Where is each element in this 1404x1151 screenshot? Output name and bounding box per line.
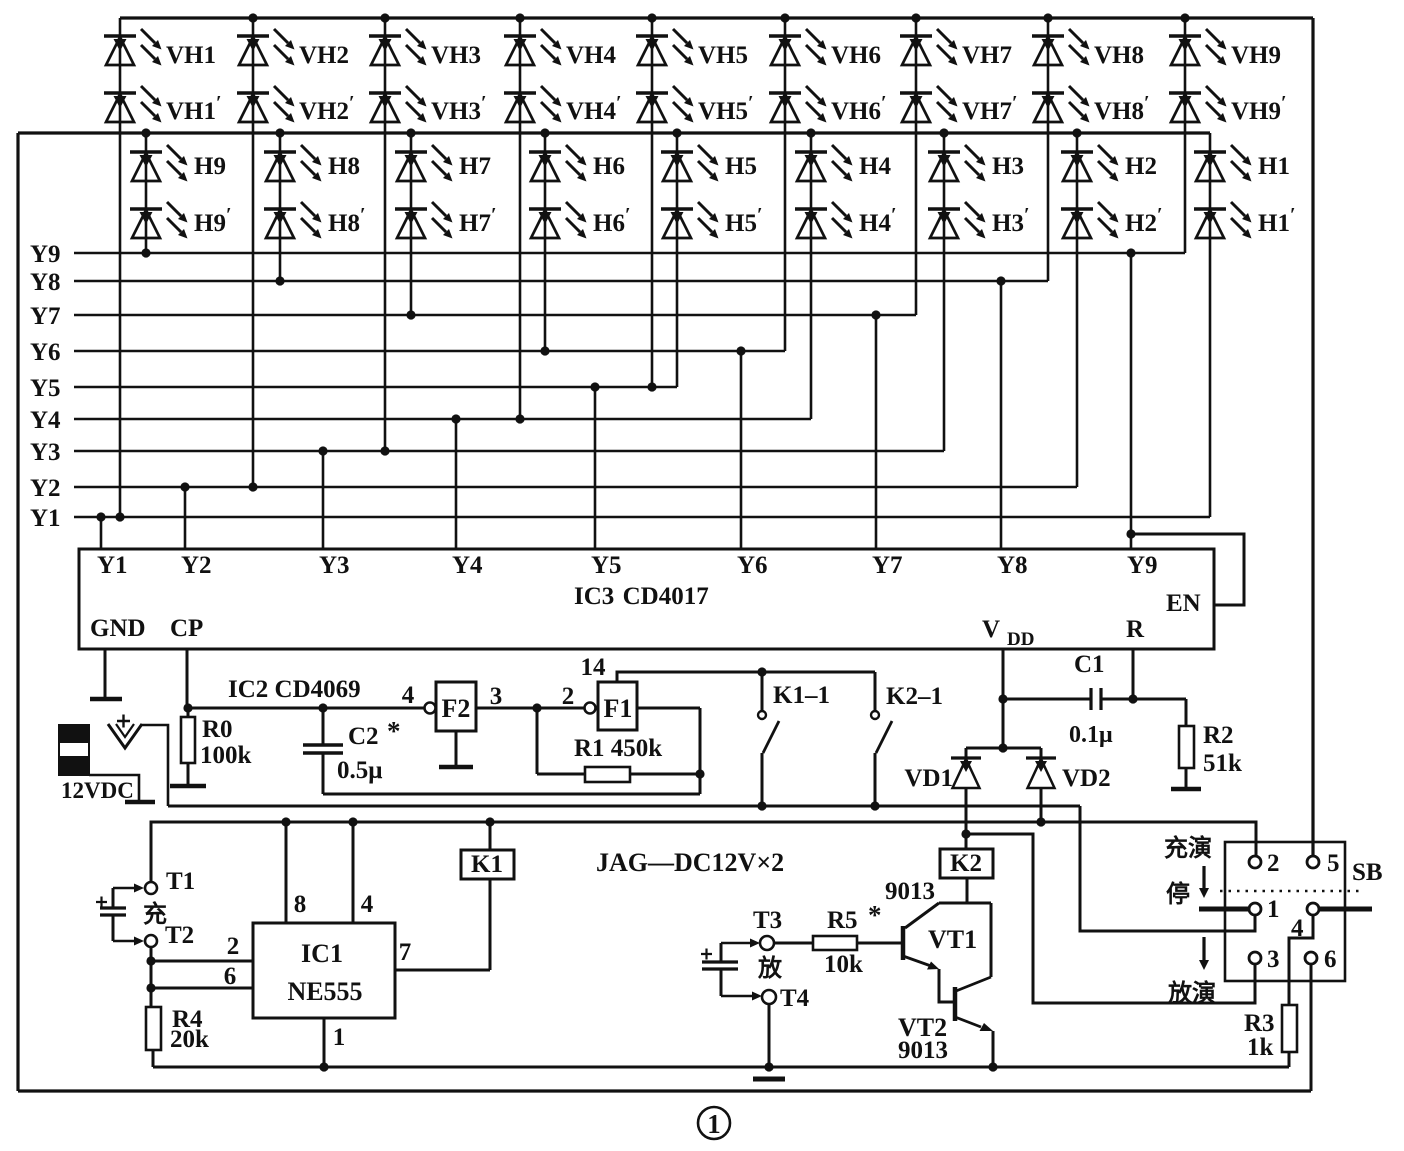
svg-text:2: 2	[562, 683, 575, 710]
svg-text:*: *	[387, 716, 401, 746]
svg-text:Y8: Y8	[997, 552, 1028, 579]
svg-text:K2: K2	[950, 850, 982, 877]
svg-text:Y7: Y7	[30, 303, 61, 330]
svg-text:GND: GND	[90, 615, 146, 642]
svg-text:K2–1: K2–1	[886, 683, 943, 710]
svg-text:T1: T1	[166, 868, 195, 895]
svg-text:6: 6	[224, 963, 237, 990]
svg-text:20k: 20k	[170, 1026, 209, 1053]
svg-text:Y8: Y8	[30, 269, 61, 296]
svg-text:14: 14	[581, 654, 607, 681]
svg-text:5: 5	[1327, 850, 1340, 877]
svg-text:Y3: Y3	[319, 552, 350, 579]
svg-text:C1: C1	[1074, 651, 1105, 678]
svg-text:Y4: Y4	[30, 407, 61, 434]
svg-text:K1: K1	[471, 851, 503, 878]
svg-text:1k: 1k	[1247, 1034, 1274, 1061]
svg-text:4: 4	[361, 891, 374, 918]
svg-text:充演: 充演	[1164, 834, 1212, 862]
svg-text:H9: H9	[194, 153, 226, 180]
svg-text:51k: 51k	[1203, 750, 1242, 777]
svg-text:JAG—DC12V×2: JAG—DC12V×2	[596, 848, 784, 877]
svg-text:VH2: VH2	[299, 42, 349, 69]
svg-text:SB: SB	[1352, 859, 1383, 886]
svg-text:VH1: VH1	[166, 42, 216, 69]
svg-text:VH8: VH8	[1094, 42, 1144, 69]
svg-text:1: 1	[707, 1109, 721, 1139]
svg-text:放: 放	[757, 954, 783, 982]
svg-text:Y6: Y6	[737, 552, 768, 579]
svg-text:H5: H5	[725, 153, 757, 180]
svg-text:H8: H8	[328, 153, 360, 180]
svg-text:F1: F1	[604, 694, 633, 723]
svg-text:10k: 10k	[824, 951, 863, 978]
svg-text:6: 6	[1324, 946, 1337, 973]
svg-text:Y4: Y4	[452, 552, 483, 579]
svg-text:VD1: VD1	[904, 765, 953, 792]
svg-text:T4: T4	[780, 985, 810, 1012]
svg-text:VH3: VH3	[431, 42, 481, 69]
svg-text:IC3 CD4017: IC3 CD4017	[574, 583, 709, 610]
svg-text:3: 3	[490, 683, 503, 710]
svg-text:Y1: Y1	[97, 552, 128, 579]
svg-text:Y1: Y1	[30, 505, 61, 532]
svg-text:4: 4	[402, 682, 415, 709]
svg-text:C2: C2	[348, 723, 379, 750]
svg-text:Y9: Y9	[1127, 552, 1158, 579]
svg-text:H6: H6	[593, 153, 625, 180]
svg-text:CP: CP	[170, 615, 203, 642]
svg-text:VH9: VH9	[1231, 42, 1281, 69]
svg-text:H3: H3	[992, 153, 1024, 180]
svg-text:0.5μ: 0.5μ	[337, 757, 382, 784]
svg-text:1: 1	[333, 1024, 346, 1051]
svg-text:R5: R5	[827, 907, 858, 934]
svg-text:0.1μ: 0.1μ	[1069, 722, 1113, 748]
svg-text:Y5: Y5	[591, 552, 622, 579]
svg-text:Y3: Y3	[30, 439, 61, 466]
svg-text:4: 4	[1291, 915, 1304, 942]
svg-text:VH7: VH7	[962, 42, 1012, 69]
svg-text:VH5: VH5	[698, 42, 748, 69]
svg-text:2: 2	[1267, 850, 1280, 877]
svg-text:VH6: VH6	[831, 42, 881, 69]
svg-text:NE555: NE555	[287, 977, 362, 1006]
svg-text:VT1: VT1	[928, 925, 977, 954]
svg-text:9013: 9013	[885, 878, 935, 905]
svg-text:Y9: Y9	[30, 241, 61, 268]
svg-text:Y2: Y2	[30, 475, 61, 502]
svg-text:F2: F2	[442, 694, 471, 723]
svg-text:H7: H7	[459, 153, 491, 180]
svg-text:2: 2	[227, 933, 240, 960]
svg-text:R0: R0	[202, 716, 233, 743]
svg-text:T2: T2	[165, 922, 194, 949]
svg-text:7: 7	[399, 939, 412, 966]
svg-text:Y6: Y6	[30, 339, 61, 366]
svg-text:9013: 9013	[898, 1037, 948, 1064]
svg-text:H2: H2	[1125, 153, 1157, 180]
svg-text:100k: 100k	[200, 742, 252, 769]
svg-text:充: 充	[143, 900, 167, 928]
svg-text:DD: DD	[1007, 629, 1034, 650]
svg-text:Y7: Y7	[872, 552, 903, 579]
svg-text:8: 8	[294, 891, 307, 918]
svg-text:IC2 CD4069: IC2 CD4069	[228, 676, 361, 703]
svg-text:Y2: Y2	[181, 552, 212, 579]
svg-text:R: R	[1126, 616, 1145, 643]
svg-text:V: V	[982, 616, 1000, 643]
svg-text:IC1: IC1	[301, 939, 343, 968]
svg-text:12VDC: 12VDC	[61, 778, 134, 803]
svg-text:R2: R2	[1203, 722, 1234, 749]
svg-text:3: 3	[1267, 946, 1280, 973]
svg-text:Y5: Y5	[30, 375, 61, 402]
svg-text:停: 停	[1166, 880, 1190, 908]
svg-text:H4: H4	[859, 153, 891, 180]
svg-text:R3: R3	[1244, 1010, 1275, 1037]
svg-text:VH4: VH4	[566, 42, 617, 69]
svg-text:1: 1	[1267, 896, 1280, 923]
svg-text:VD2: VD2	[1062, 765, 1111, 792]
svg-text:H1: H1	[1258, 153, 1290, 180]
svg-text:T3: T3	[753, 907, 782, 934]
svg-text:*: *	[868, 900, 882, 930]
svg-text:K1–1: K1–1	[773, 682, 830, 709]
svg-text:放演: 放演	[1167, 979, 1216, 1007]
svg-text:R1 450k: R1 450k	[574, 735, 662, 762]
svg-text:EN: EN	[1166, 590, 1201, 617]
